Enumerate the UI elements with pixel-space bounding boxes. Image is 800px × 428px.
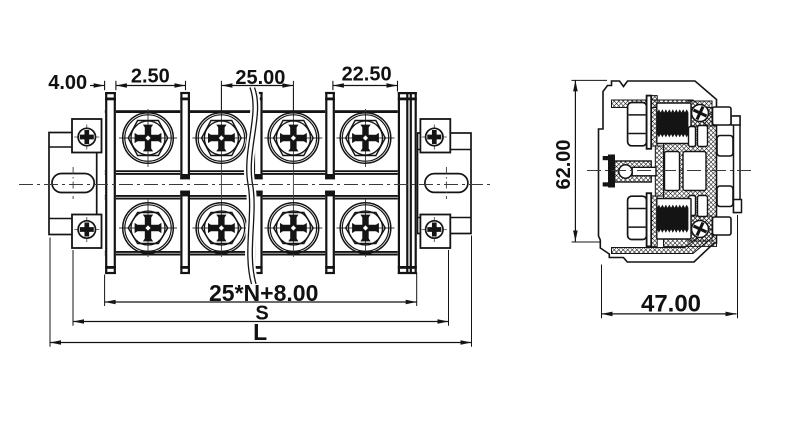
svg-text:4.00: 4.00	[48, 72, 87, 94]
svg-text:2.50: 2.50	[131, 65, 170, 87]
svg-text:47.00: 47.00	[641, 290, 701, 317]
svg-text:22.50: 22.50	[342, 64, 392, 86]
svg-text:L: L	[253, 319, 267, 345]
svg-text:25.00: 25.00	[235, 67, 285, 89]
svg-text:62.00: 62.00	[553, 139, 575, 189]
